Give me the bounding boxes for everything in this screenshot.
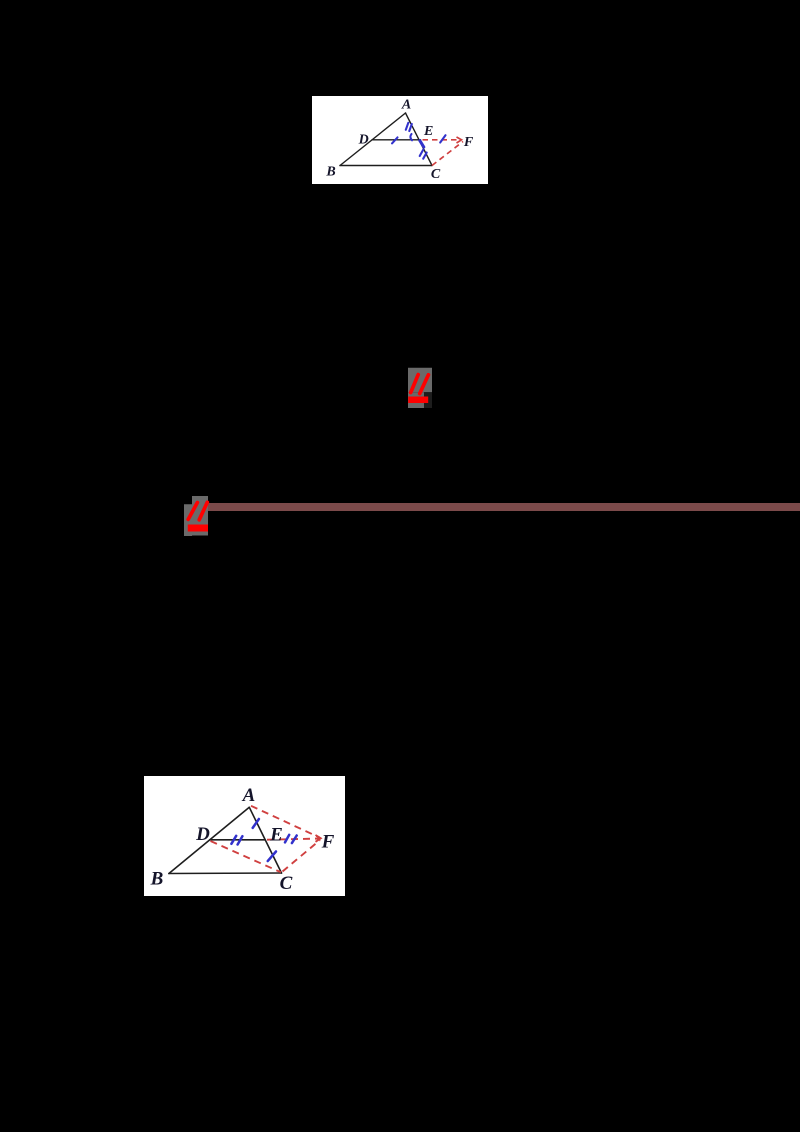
svg-text:E: E [269, 824, 283, 845]
svg-text:B: B [325, 165, 335, 180]
svg-text:D: D [358, 133, 369, 148]
svg-text:C: C [280, 873, 293, 894]
svg-text:F: F [463, 135, 474, 150]
svg-text:C: C [431, 167, 441, 182]
svg-text:F: F [321, 831, 335, 852]
svg-text:A: A [401, 98, 411, 113]
svg-text:D: D [195, 824, 210, 845]
svg-text:B: B [150, 868, 164, 889]
svg-text:A: A [242, 785, 256, 806]
svg-text:E: E [423, 124, 433, 139]
